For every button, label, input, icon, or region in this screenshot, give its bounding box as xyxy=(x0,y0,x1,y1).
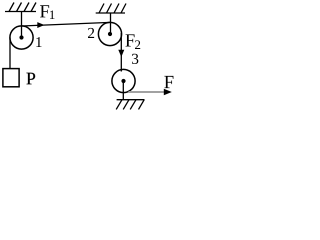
floor support (hatched) xyxy=(116,100,144,110)
rope from pulley 1 left down to block P xyxy=(9,38,11,69)
force arrow F2 head xyxy=(118,50,124,57)
axle link pulley 2 to ceiling xyxy=(110,13,112,34)
label 2 xyxy=(88,28,94,38)
force arrow F1 head xyxy=(37,22,44,28)
ceiling support 1 (hatched) xyxy=(5,3,36,12)
label F xyxy=(164,76,173,88)
block P xyxy=(3,69,19,87)
force arrow F line xyxy=(129,91,166,93)
label F2 sub2 xyxy=(135,40,140,49)
label 1 xyxy=(36,37,41,47)
rope from pulley 2 down to pulley 3 xyxy=(120,33,122,72)
pulley 1 xyxy=(10,26,33,49)
label F2 F xyxy=(125,34,134,46)
label P xyxy=(27,73,36,85)
pulley 3 xyxy=(112,69,135,92)
force arrow F head xyxy=(164,89,172,96)
rope from pulley 1 top to pulley 2 xyxy=(22,22,111,26)
label F1 F xyxy=(40,5,49,17)
axle link pulley 1 to ceiling xyxy=(21,12,23,38)
pulley 2 xyxy=(98,22,121,45)
label F1 sub1 xyxy=(50,11,55,19)
ceiling support 2 (hatched) xyxy=(96,4,126,14)
axle link pulley 3 to floor xyxy=(122,81,124,100)
label 3 xyxy=(132,54,138,64)
